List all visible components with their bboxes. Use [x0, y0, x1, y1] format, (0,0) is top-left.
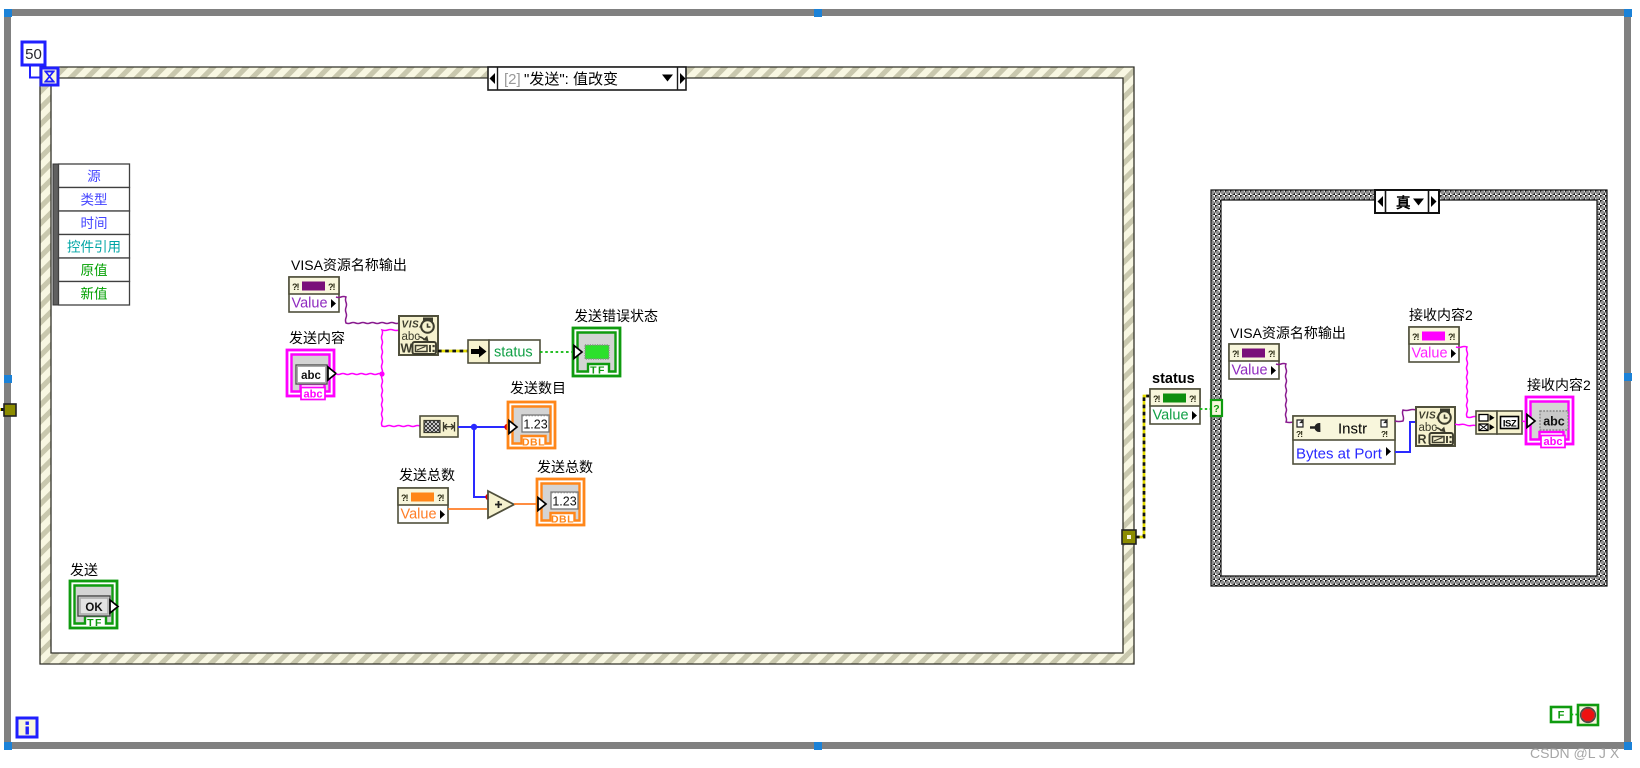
svg-text:R: R [1418, 433, 1427, 447]
svg-text:发送: 发送 [70, 562, 98, 578]
coercion dot at add [485, 494, 491, 500]
property node 发送总数 Value [398, 488, 448, 523]
event structure timeout terminal [41, 68, 58, 85]
junction dot on i32 wire [471, 424, 477, 430]
label 接收内容2 (property node) [1409, 307, 1473, 323]
label VISA资源名称输出 (case) [1230, 325, 1346, 341]
svg-text:TF: TF [87, 617, 103, 629]
svg-text:status: status [494, 345, 533, 361]
svg-text:?!: ?! [1268, 349, 1275, 359]
svg-text:[2]: [2] [504, 71, 521, 88]
numeric indicator 发送数目 [508, 402, 555, 449]
error tunnel on event structure [1122, 530, 1136, 544]
wire 50 to timeout terminal [30, 65, 41, 78]
VISA Write function [399, 316, 438, 356]
property node Bytes at Port [1293, 416, 1395, 464]
svg-text:abc: abc [1543, 415, 1565, 429]
svg-text:发送内容: 发送内容 [289, 330, 345, 346]
svg-text:?!: ?! [1412, 332, 1419, 342]
label VISA资源名称输出 (event frame) [291, 257, 407, 273]
svg-text:Instr: Instr [1338, 421, 1367, 438]
svg-text:Value: Value [292, 296, 328, 312]
svg-text:Value: Value [1232, 363, 1268, 379]
label 发送数目 [510, 380, 566, 396]
svg-text:Bytes at Port: Bytes at Port [1296, 446, 1383, 463]
boolean wire F to stop [1571, 714, 1578, 716]
svg-text:?!: ?! [1189, 394, 1196, 404]
svg-text:?!: ?! [1153, 394, 1160, 404]
svg-text:发送总数: 发送总数 [399, 467, 455, 483]
label 发送 [70, 562, 98, 578]
svg-text:类型: 类型 [81, 193, 108, 208]
svg-text:Value: Value [401, 507, 437, 523]
string wire 接收内容2 Value down to concat [1456, 347, 1477, 418]
boolean control 发送 (OK button) [70, 581, 118, 629]
svg-text:?!: ?! [1448, 332, 1455, 342]
event data node [53, 164, 130, 305]
svg-text:OK: OK [85, 602, 103, 614]
unbundle by name status [468, 340, 540, 363]
svg-text:Value: Value [1153, 408, 1189, 424]
svg-text:DBL: DBL [551, 514, 574, 526]
case selector terminal ? [1211, 400, 1222, 416]
svg-text:"发送": 值改变: "发送": 值改变 [524, 71, 618, 88]
false constant F [1551, 707, 1571, 722]
add function [488, 491, 514, 518]
i32 wire Bytes at Port to VISA Read [1395, 422, 1416, 452]
wire junction down to string length [382, 374, 421, 427]
loop condition terminal (stop) [1578, 705, 1598, 725]
svg-text:接收内容2: 接收内容2 [1409, 307, 1473, 323]
string control 发送内容 [287, 350, 336, 401]
svg-text:abc: abc [1544, 436, 1563, 448]
numeric constant 50 (timeout) [22, 42, 45, 65]
svg-text:TF: TF [590, 365, 606, 377]
svg-text:Value: Value [1412, 346, 1448, 362]
property node VISA资源名称输出 Value (case) [1229, 344, 1279, 379]
string wire VISA Read to concat [1455, 424, 1477, 426]
svg-text:源: 源 [87, 169, 101, 184]
svg-text:?!: ?! [292, 282, 299, 292]
string indicator 接收内容2 [1526, 397, 1573, 448]
svg-text:?!: ?! [437, 493, 444, 503]
error wire VISA Write to unbundle [438, 350, 468, 353]
string length function [420, 416, 458, 437]
svg-text:status: status [1152, 371, 1195, 387]
case structure border [1211, 190, 1607, 586]
error wire tunnel to status node [1136, 396, 1150, 537]
orange wire add to 发送总数 indicator [514, 503, 537, 505]
coercion dot at 发送数目 [504, 424, 510, 430]
svg-text:50: 50 [25, 46, 42, 63]
concatenate strings function [1476, 411, 1522, 434]
event structure border [40, 67, 1134, 664]
svg-text:原值: 原值 [81, 263, 108, 278]
svg-text:ISZ: ISZ [1503, 419, 1517, 430]
wire VISA resource to Instr property node [1276, 364, 1293, 423]
string wire concat to indicator [1522, 420, 1529, 423]
svg-text:abc: abc [304, 389, 323, 401]
svg-text:?!: ?! [401, 493, 408, 503]
label status [1152, 371, 1195, 387]
svg-text:1.23: 1.23 [523, 418, 547, 432]
label 发送总数 (property node) [399, 467, 455, 483]
svg-text:VISA资源名称输出: VISA资源名称输出 [291, 257, 407, 273]
svg-text:DBL: DBL [522, 437, 545, 449]
svg-text:发送总数: 发送总数 [537, 459, 593, 475]
svg-text:?!: ?! [1232, 349, 1239, 359]
label 接收内容2 (indicator) [1527, 377, 1591, 393]
boolean wire status to LED [540, 351, 573, 353]
watermark CSDN [1530, 745, 1620, 761]
property node VISA资源名称输出 Value (event frame) [289, 277, 339, 312]
wire 发送内容 to junction [336, 374, 382, 375]
loop iteration terminal i [17, 718, 37, 737]
svg-text:时间: 时间 [81, 216, 108, 231]
svg-text:W: W [401, 342, 413, 356]
svg-text:真: 真 [1396, 194, 1411, 212]
wire VISA resource to VISA Write [336, 297, 399, 324]
boolean indicator 发送错误状态 [573, 328, 620, 377]
numeric indicator 发送总数 [537, 479, 584, 526]
VISA Read function [1416, 407, 1455, 447]
svg-text:发送数目: 发送数目 [510, 380, 566, 396]
svg-text:abc: abc [301, 370, 321, 382]
error tunnel on while loop [0, 404, 16, 416]
i32 wire branch down to add [474, 427, 486, 497]
svg-text:控件引用: 控件引用 [67, 240, 121, 255]
svg-text:CSDN @L J X: CSDN @L J X [1530, 745, 1620, 761]
svg-text:1.23: 1.23 [552, 495, 576, 509]
svg-text:接收内容2: 接收内容2 [1527, 377, 1591, 393]
svg-text:发送错误状态: 发送错误状态 [574, 308, 658, 324]
label 发送内容 [289, 330, 345, 346]
property node status Value [1150, 389, 1200, 424]
property node 接收内容2 Value [1409, 327, 1459, 362]
orange wire 发送总数 to add [448, 508, 487, 510]
svg-text:F: F [1558, 710, 1565, 722]
label 发送总数 (indicator) [537, 459, 593, 475]
junction dot on string wire [379, 371, 384, 376]
wire junction up to VISA Write input [382, 330, 400, 375]
label 发送错误状态 [574, 308, 658, 324]
svg-text:VISA资源名称输出: VISA资源名称输出 [1230, 325, 1346, 341]
svg-text:?: ? [1213, 403, 1219, 415]
svg-text:新值: 新值 [81, 287, 108, 302]
i32 wire string length to 发送数目 [458, 426, 505, 428]
wire Instr out to VISA Read [1395, 410, 1416, 422]
event selector label [2] 发送: 值改变 [488, 67, 686, 90]
boolean wire status to case selector [1200, 408, 1211, 410]
svg-text:?!: ?! [328, 282, 335, 292]
case selector label 真 [1375, 190, 1439, 213]
